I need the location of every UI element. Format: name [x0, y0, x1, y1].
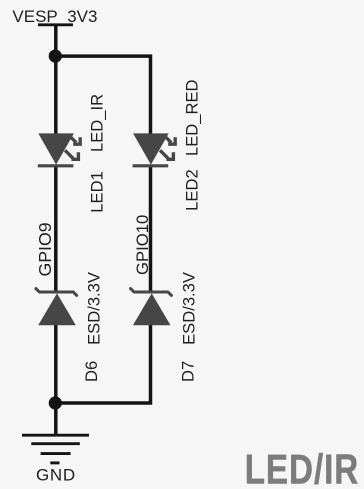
svg-text:GND: GND — [36, 466, 76, 485]
wire power bar to top junction — [54, 26, 58, 57]
svg-text:D7: D7 — [179, 361, 198, 382]
LED1 emission arrow 1 — [71, 137, 81, 144]
wire LED1 cathode to D6 — [54, 166, 58, 293]
svg-text:LED/IR: LED/IR — [245, 446, 360, 489]
junction node bottom — [49, 396, 62, 409]
svg-text:LED_RED: LED_RED — [183, 79, 202, 156]
wire top junction to LED1 — [54, 56, 58, 135]
zener diode D6 body — [36, 289, 77, 326]
wire D6 anode to bottom junction — [54, 325, 58, 404]
svg-text:VESP_3V3: VESP_3V3 — [12, 7, 97, 26]
svg-text:LED_IR: LED_IR — [88, 94, 107, 152]
power symbol VESP_3V3 bar — [38, 23, 73, 26]
LED D1 body — [38, 133, 74, 165]
ground — [22, 403, 89, 463]
zener diode D7 body — [131, 289, 172, 326]
LED1 emission arrow 2 — [65, 150, 78, 159]
svg-text:LED2: LED2 — [183, 169, 202, 211]
svg-text:LED1: LED1 — [88, 171, 107, 213]
junction node top — [49, 50, 62, 63]
svg-text:ESD/3.3V: ESD/3.3V — [85, 272, 104, 345]
svg-text:D6: D6 — [82, 361, 101, 382]
svg-text:ESD/3.3V: ESD/3.3V — [180, 272, 199, 345]
wire D7 anode to bottom rail — [56, 325, 151, 404]
LED2 emission arrow 1 — [166, 137, 176, 144]
LED D2 body — [133, 133, 169, 165]
wire LED2 cathode to D7 — [149, 166, 153, 293]
LED2 emission arrow 2 — [160, 150, 173, 159]
svg-text:GPIO9: GPIO9 — [35, 222, 55, 276]
wire top rail and right branch drop — [56, 56, 151, 135]
svg-text:GPIO10: GPIO10 — [133, 215, 152, 275]
